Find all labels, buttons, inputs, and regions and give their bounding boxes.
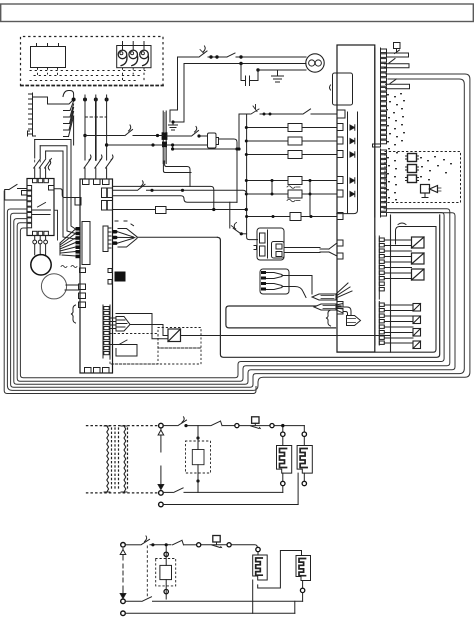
row 4 fuse bbox=[246, 154, 288, 156]
run capacitor bbox=[169, 64, 307, 131]
wire from comb to junction bbox=[33, 93, 74, 104]
mid right connector strip bbox=[103, 226, 108, 252]
furnace control board M2 bbox=[337, 45, 375, 352]
wire L2 bbox=[184, 64, 306, 118]
M1 lower ladder strip bbox=[103, 305, 391, 358]
thermostat TH bbox=[31, 44, 66, 68]
lower right ladder upper bbox=[375, 236, 384, 345]
L feeds from right bbox=[35, 140, 76, 240]
node bus vertical bbox=[247, 114, 258, 240]
right of bus bbox=[166, 135, 190, 137]
contactor bottom leads bbox=[35, 236, 46, 241]
row 2 fuse bbox=[246, 127, 288, 129]
inner module on M2 bbox=[320, 73, 353, 314]
switch + box lower bbox=[110, 340, 137, 345]
top line bbox=[125, 544, 140, 546]
relay coil R1 bbox=[208, 133, 217, 148]
inner relay rect bbox=[82, 222, 90, 265]
transformer windings bbox=[107, 426, 109, 492]
heater elements bank1 bbox=[163, 446, 312, 505]
M1 top pin notches bbox=[83, 179, 90, 185]
blower motor bbox=[41, 274, 66, 299]
bottom lines bbox=[163, 491, 172, 493]
spade terminal bars bbox=[387, 53, 409, 57]
strip lower bbox=[375, 149, 381, 217]
wires lower to small squares bbox=[384, 305, 413, 343]
supply dotted lines bbox=[87, 425, 159, 427]
limit rows ladder bbox=[239, 105, 337, 240]
diode column inside board bbox=[337, 112, 358, 214]
bottom lines bbox=[125, 600, 141, 602]
gas valve symbol bbox=[421, 185, 442, 198]
blower relay R2 bbox=[230, 202, 320, 260]
igniter return routing bbox=[165, 161, 190, 186]
row 1 limit switch bbox=[239, 113, 250, 115]
U drop + ground bbox=[170, 110, 184, 122]
harness routing bus bbox=[4, 74, 470, 394]
contactor CONT bbox=[27, 179, 54, 236]
top line bbox=[163, 425, 177, 427]
three phase feeds into contactor bbox=[35, 140, 46, 159]
sequencer dashed box bbox=[186, 426, 211, 493]
M1 bottom pin notches bbox=[85, 368, 92, 374]
header bar bbox=[1, 4, 474, 22]
inner switch bbox=[33, 203, 51, 215]
row 6 fuse 4A bbox=[246, 193, 288, 195]
dashed mechanical link bbox=[85, 116, 107, 118]
wire harness fan bbox=[69, 101, 74, 137]
fan pins mid right bbox=[112, 230, 118, 234]
top wire run to inducer bbox=[178, 46, 307, 118]
row 3 fuse bbox=[246, 140, 288, 142]
splice connector block bbox=[260, 269, 289, 294]
harness fan into M1 left pins bbox=[60, 229, 76, 256]
hook loop bbox=[63, 91, 74, 100]
three accessory terminals bbox=[406, 154, 419, 183]
ladder lower bbox=[375, 302, 379, 346]
dark return line bbox=[217, 215, 439, 357]
plug arrows bbox=[160, 429, 162, 487]
dashed leaders below thermostat bbox=[30, 68, 145, 81]
dashes above fan bbox=[115, 221, 134, 226]
pressure switch PS bbox=[199, 51, 207, 57]
row 7 fuse bbox=[246, 216, 290, 218]
curly brace bbox=[71, 305, 76, 323]
node R W Y terminals bbox=[72, 98, 109, 102]
row 5 fuse 4A bbox=[246, 180, 288, 182]
external switch + box left bbox=[9, 185, 17, 190]
three vertical wires to board bbox=[84, 95, 113, 179]
squiggle labels bbox=[61, 266, 77, 268]
right top pin pairs bbox=[102, 188, 107, 198]
X-box flame sensor bbox=[168, 329, 181, 342]
connector with arrow lower M2 bbox=[347, 316, 361, 326]
contact bbox=[227, 53, 235, 57]
igniter hook wire bbox=[396, 227, 437, 245]
brace bbox=[326, 310, 331, 326]
M2 left edge pins bbox=[337, 110, 345, 118]
accessory dashed box bbox=[385, 152, 461, 203]
thermostat field-wiring dashed box bbox=[21, 37, 164, 86]
heater elements bank2 bbox=[125, 551, 310, 614]
switch contacts on verticals bbox=[84, 159, 112, 168]
dashed boxes around X-box bbox=[110, 328, 201, 365]
top right: door switch bbox=[385, 43, 410, 89]
wire harness fan M1 right bbox=[113, 161, 247, 247]
field wiring dots area bbox=[386, 93, 452, 200]
M1 top-right wires bbox=[113, 189, 137, 191]
blower control board M1 bbox=[80, 179, 113, 373]
series link bbox=[258, 551, 302, 589]
black component bbox=[108, 269, 112, 273]
relay contact wires upper bbox=[384, 223, 436, 349]
M2 right terminal strip upper bbox=[373, 48, 387, 217]
lower-right section enclosure bbox=[337, 215, 436, 352]
hot surface igniter bus bbox=[163, 111, 166, 164]
compressor motor bbox=[31, 255, 51, 275]
ground for inducer bbox=[277, 70, 279, 76]
inducer motor IDM bbox=[306, 54, 324, 72]
sub links bbox=[272, 181, 310, 217]
sequencer 2 bbox=[147, 546, 175, 599]
wire loop above bbox=[116, 314, 168, 339]
harness fans right bbox=[289, 276, 361, 327]
wire L1 top bbox=[178, 57, 199, 110]
lower pins left bbox=[80, 268, 86, 273]
pentagon harness bbox=[110, 318, 116, 329]
M1 left black pins bbox=[76, 227, 81, 231]
wires into igniter bus bbox=[85, 125, 237, 202]
humidistat plug P1 bbox=[117, 42, 151, 68]
left pin bbox=[75, 198, 81, 206]
relay squares big bbox=[412, 237, 425, 280]
low-voltage terminal comb strip bbox=[28, 91, 74, 146]
